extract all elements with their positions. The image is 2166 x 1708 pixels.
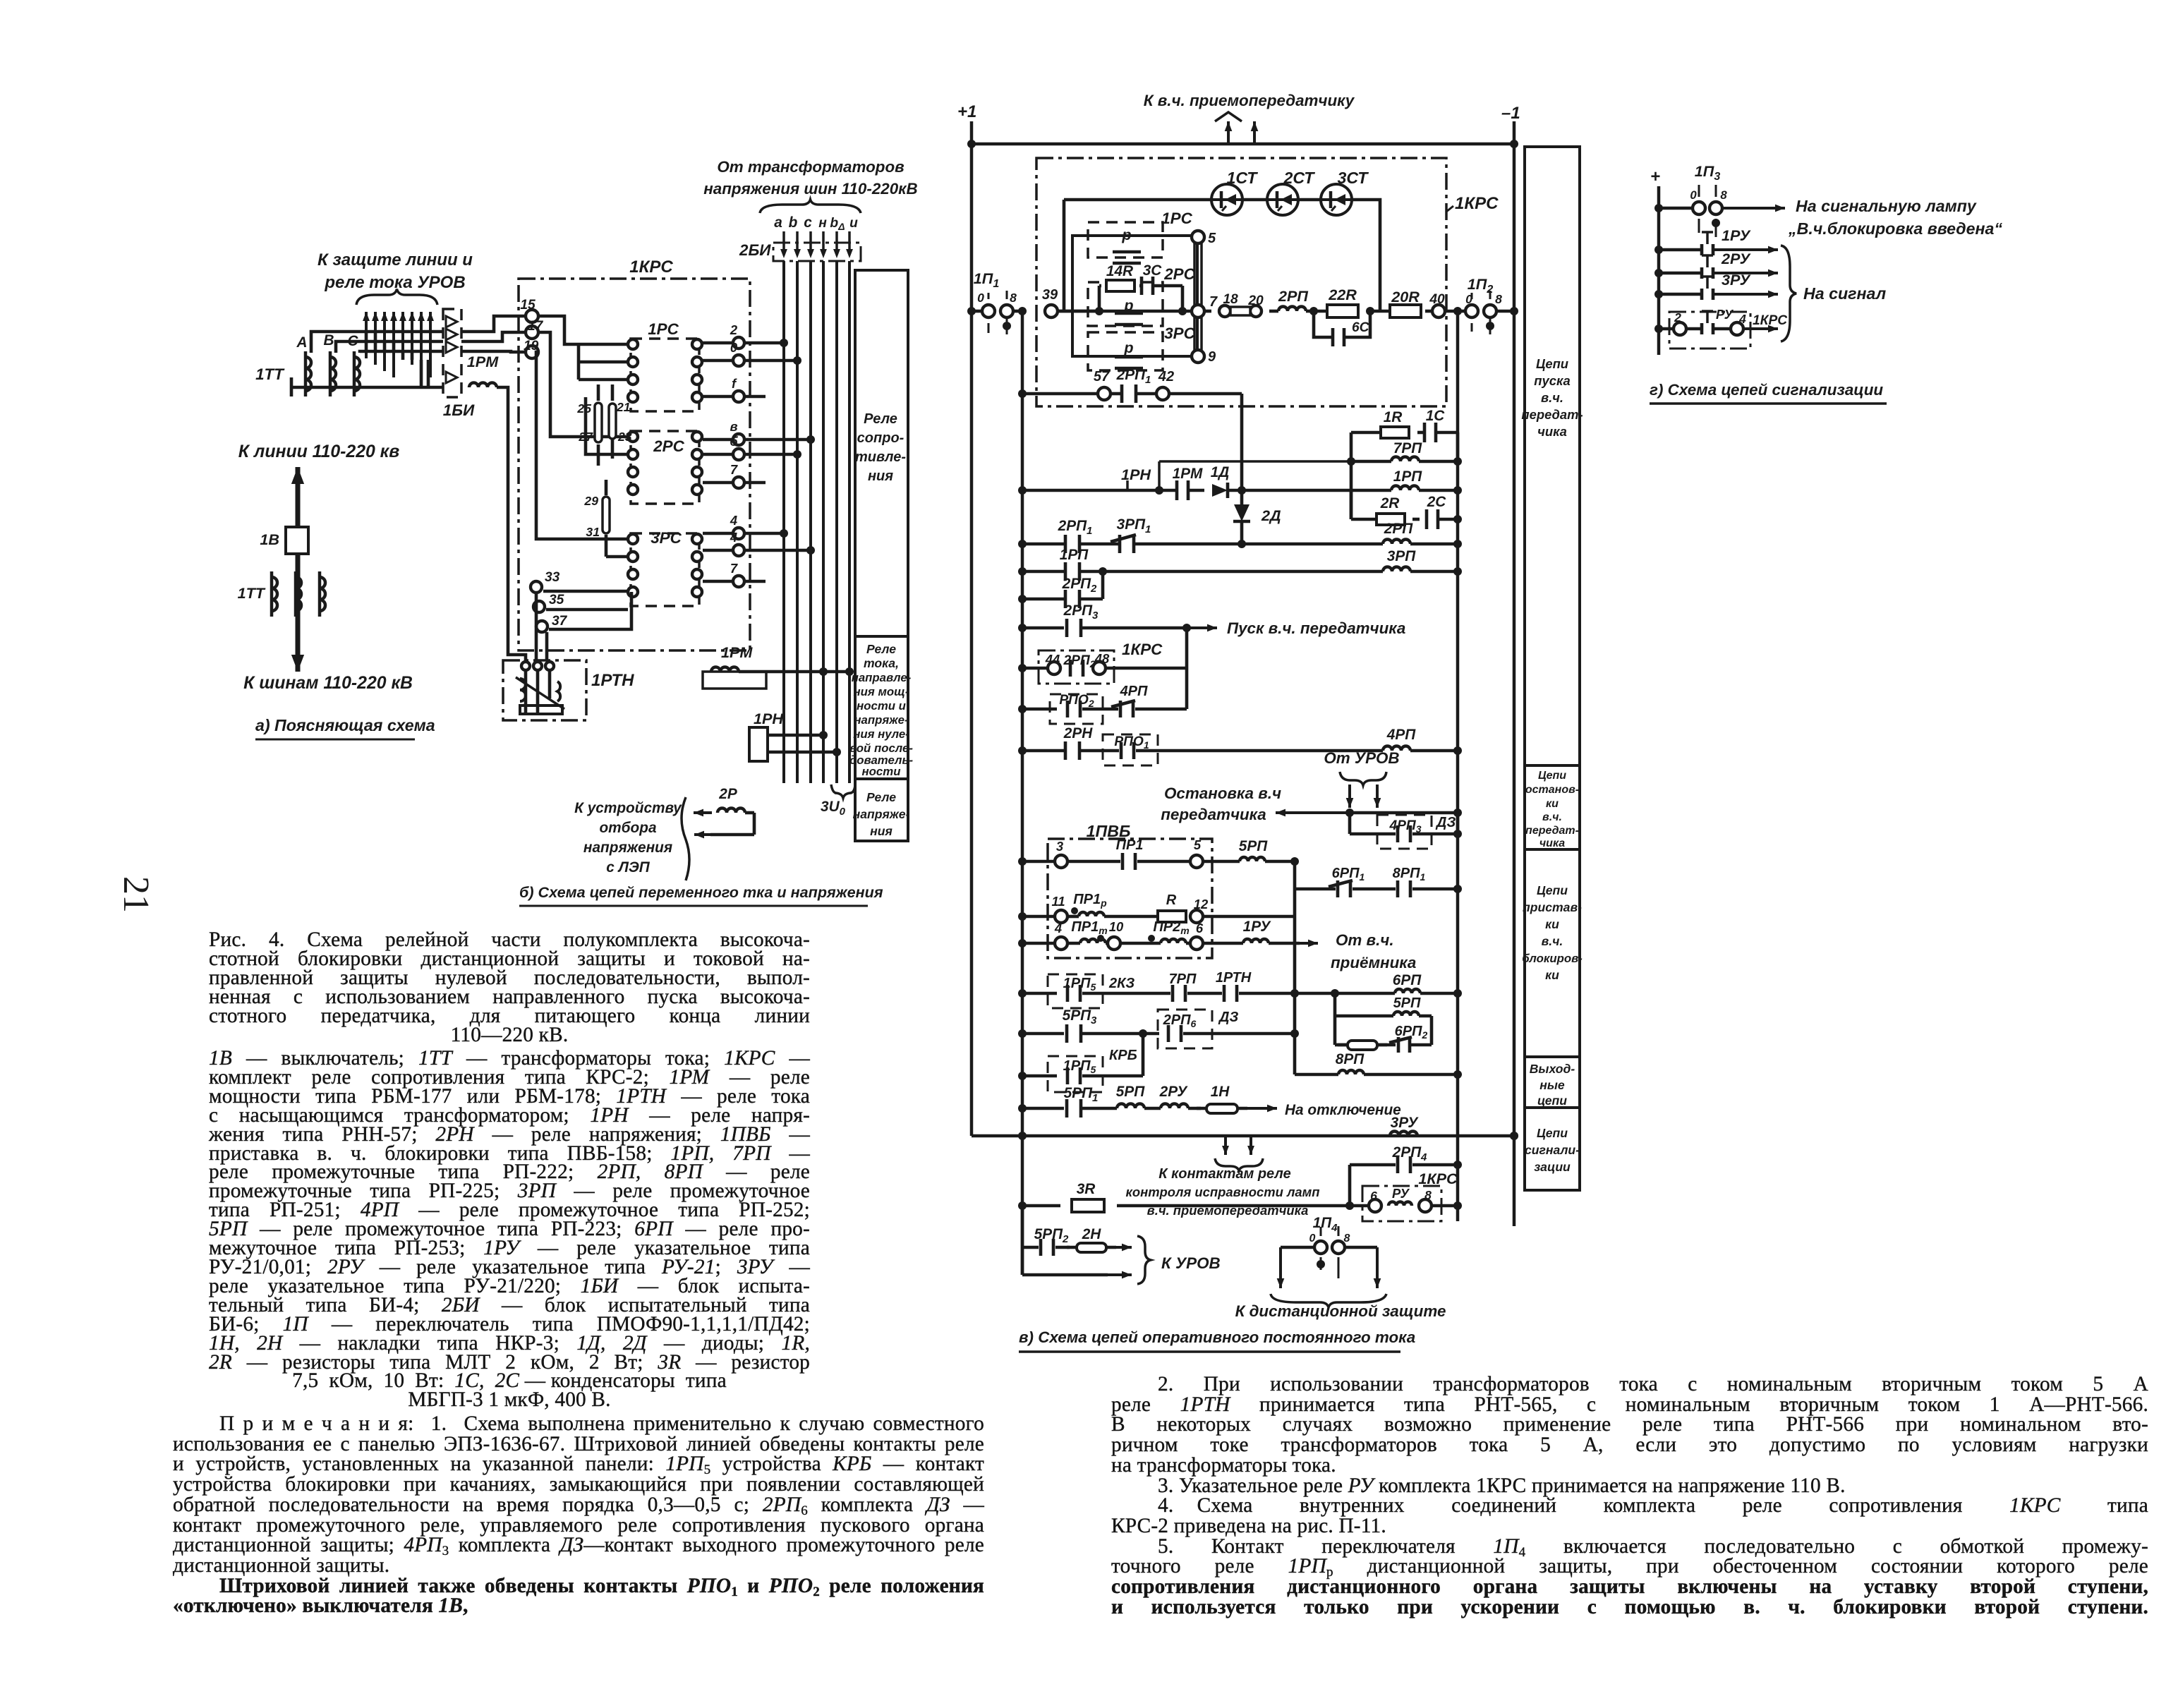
svg-text:0: 0 (730, 340, 738, 355)
svg-text:ности: ности (862, 765, 901, 778)
relay 1РТН symbol (516, 662, 564, 714)
svg-text:7РП: 7РП (1393, 440, 1422, 456)
contact РУ (1КРС) to signal (1654, 307, 1788, 349)
svg-text:42: 42 (1158, 369, 1174, 384)
svg-text:А: А (296, 334, 307, 351)
svg-text:25: 25 (576, 401, 591, 416)
test block 2БИ (773, 231, 861, 261)
svg-text:1П4: 1П4 (1313, 1215, 1338, 1234)
svg-text:3РС: 3РС (651, 529, 682, 547)
resistor 2R capacitor 2C branch (1351, 490, 1462, 529)
svg-text:На сигнальную лампу: На сигнальную лампу (1796, 197, 1977, 215)
svg-text:1ТТ: 1ТТ (255, 365, 285, 383)
svg-text:2РУ: 2РУ (1159, 1084, 1189, 1100)
svg-text:2РУ: 2РУ (1721, 250, 1751, 267)
label "К устройству отбора напряжения с ЛЭП" (574, 800, 682, 876)
svg-text:ПР1р: ПР1р (1073, 892, 1107, 909)
svg-text:5: 5 (1194, 837, 1202, 852)
svg-text:2R: 2R (1380, 495, 1400, 511)
feeder arrow down (291, 607, 304, 672)
svg-text:–1: –1 (1501, 104, 1520, 123)
svg-text:чика: чика (1539, 837, 1565, 849)
svg-text:В: В (323, 332, 334, 349)
svg-text:10: 10 (1109, 919, 1124, 934)
svg-text:ДЗ: ДЗ (1218, 1010, 1238, 1025)
contact row 5РП1-5РП-2РУ-1Н trip output (1018, 1084, 1401, 1118)
svg-text:К УРОВ: К УРОВ (1161, 1254, 1221, 1272)
svg-text:5: 5 (1208, 231, 1216, 246)
wire stop HF row (1276, 808, 1462, 817)
box Реле сопротивления (855, 270, 908, 636)
svg-text:2РП1: 2РП1 (1058, 518, 1093, 537)
svg-text:1КРС: 1КРС (629, 258, 673, 277)
svg-text:21: 21 (116, 876, 156, 913)
svg-text:На отключение: На отключение (1285, 1102, 1401, 1118)
contact row 2РП3 start HF transmitter (1018, 602, 1405, 709)
svg-text:Реле: Реле (866, 790, 896, 804)
node -1 (1501, 104, 1520, 123)
contact row 6РП1-8РП1 (1295, 866, 1462, 897)
svg-text:ния: ния (870, 824, 893, 838)
signal row with coil 3РУ (972, 1115, 1518, 1155)
svg-text:цепи: цепи (1537, 1094, 1567, 1108)
svg-text:1КРС: 1КРС (1122, 641, 1163, 658)
resistor 29-31 (583, 494, 610, 539)
wire -1 rail (1510, 121, 1518, 1226)
svg-text:8: 8 (1010, 291, 1017, 305)
svg-text:КРБ: КРБ (1109, 1048, 1137, 1063)
svg-text:1КРС: 1КРС (1455, 194, 1499, 213)
svg-text:11: 11 (1051, 894, 1065, 909)
svg-text:2Д: 2Д (1261, 507, 1281, 524)
arrows to УРОВ protection (363, 312, 434, 377)
svg-text:2СТ: 2СТ (1283, 169, 1316, 187)
svg-text:22R: 22R (1328, 286, 1357, 303)
resistor 20R (1390, 288, 1433, 317)
svg-text:48: 48 (1094, 651, 1110, 666)
label 1ТТ (255, 365, 285, 383)
terminal 33 (531, 570, 560, 593)
svg-text:1РП5: 1РП5 (1063, 1058, 1096, 1075)
label 1КРС (в) (1446, 194, 1499, 213)
svg-text:1РС: 1РС (648, 320, 679, 338)
current transformer 1ТТ phase C (354, 351, 360, 396)
svg-text:35: 35 (549, 593, 564, 607)
svg-text:1РП: 1РП (1393, 468, 1422, 485)
brace На сигнал (1781, 246, 1887, 341)
svg-text:Реле: Реле (866, 642, 896, 656)
svg-text:2РП4: 2РП4 (1392, 1144, 1427, 1163)
switch 1П3 (1654, 162, 1785, 237)
svg-text:РПО1: РПО1 (1114, 734, 1149, 751)
svg-text:2РС: 2РС (1163, 265, 1195, 283)
contact row 1РН-1РМ-1Д (1018, 464, 1462, 500)
label Цепи сигнализации (1525, 1126, 1580, 1174)
schematic b) AC current and voltage circuits (503, 158, 918, 906)
svg-text:г) Схема цепей сигнализации: г) Схема цепей сигнализации (1650, 381, 1883, 399)
column box Выходные цепи (1525, 1057, 1580, 1108)
svg-text:3РС: 3РС (1164, 325, 1195, 342)
svg-text:3С: 3С (1143, 262, 1163, 279)
3РС element box (1088, 325, 1196, 370)
HF blocking attachment 1ПВБ box (1048, 822, 1212, 958)
line arrow up (291, 467, 304, 528)
svg-text:1РП5: 1РП5 (1063, 976, 1096, 993)
svg-text:bΔ: bΔ (830, 216, 845, 232)
svg-text:1КРС: 1КРС (1753, 313, 1788, 328)
svg-text:2РП: 2РП (1384, 521, 1413, 537)
wire top rail (972, 143, 1514, 146)
resistor 1R capacitor 1С branch (1351, 408, 1458, 519)
svg-text:в.ч.: в.ч. (1542, 934, 1563, 948)
svg-text:b: b (789, 214, 798, 231)
svg-text:От УРОВ: От УРОВ (1324, 749, 1399, 767)
svg-text:5РП: 5РП (1116, 1084, 1145, 1100)
label От УРОВ (1324, 749, 1399, 767)
row 3R with РУ (1КРС) (1018, 1170, 1462, 1221)
contact row 3-ПР1-5 with coil 5РП (1018, 837, 1299, 1074)
svg-text:9: 9 (1208, 349, 1216, 365)
schematic v) DC operative circuits (957, 92, 1583, 1352)
terminal 39 (1042, 287, 1099, 317)
svg-text:ПР1: ПР1 (1116, 837, 1144, 853)
svg-text:3РП: 3РП (1387, 548, 1416, 564)
node + (signal circuit) (1650, 167, 1660, 186)
label Реле тока направления мощности (849, 642, 914, 778)
box Реле напряжения (855, 779, 908, 841)
relay coil 2РП (main row) (1278, 287, 1314, 311)
svg-text:39: 39 (1042, 287, 1058, 303)
svg-text:2РП2: 2РП2 (1062, 576, 1097, 595)
svg-text:R: R (1166, 892, 1177, 908)
svg-text:в: в (730, 419, 737, 434)
test block 1БИ (443, 309, 461, 397)
svg-text:3РУ: 3РУ (1722, 271, 1751, 289)
resistor 21-23 (609, 400, 632, 444)
svg-text:2Н: 2Н (1082, 1226, 1102, 1242)
node +1 (957, 102, 976, 121)
contact row 1РП5-7РП-1РТН with coil 6РП (1018, 970, 1462, 1008)
junction signal rail (1510, 1132, 1518, 1140)
svg-text:Цепи: Цепи (1537, 1126, 1568, 1140)
contact loop 2РП2 (1018, 571, 1103, 608)
svg-text:1П1: 1П1 (974, 269, 1000, 290)
wire CT secondary harness (291, 332, 444, 396)
box Реле тока (855, 636, 908, 779)
svg-text:14R: 14R (1106, 263, 1133, 279)
svg-text:5РП2: 5РП2 (1034, 1226, 1069, 1245)
schematic g) signalling circuits (1650, 162, 2002, 404)
svg-text:ные: ные (1539, 1078, 1565, 1092)
transistor 2СТ (1267, 169, 1315, 215)
svg-text:8РП: 8РП (1336, 1051, 1365, 1067)
power relay 1РМ (703, 643, 854, 689)
svg-text:15: 15 (520, 298, 536, 313)
svg-text:На сигнал: На сигнал (1803, 284, 1887, 303)
svg-text:57: 57 (1094, 369, 1110, 384)
svg-text:33: 33 (545, 570, 560, 585)
svg-text:Выход-: Выход- (1530, 1062, 1575, 1076)
svg-text:б: б (730, 434, 738, 449)
svg-text:2КЗ: 2КЗ (1108, 976, 1135, 991)
contact row 44-2РП2-48 (1КРС) (1018, 641, 1187, 684)
svg-text:и: и (849, 216, 858, 231)
relay set 1КРС box (519, 279, 750, 650)
label C (347, 333, 358, 349)
terminal 35 (533, 593, 564, 612)
svg-text:6РП1: 6РП1 (1332, 866, 1365, 883)
svg-text:2РП6: 2РП6 (1163, 1012, 1197, 1029)
svg-text:2РП: 2РП (1278, 287, 1308, 305)
svg-text:1КРС: 1КРС (1418, 1170, 1458, 1187)
resistance relay 1РС (628, 320, 702, 411)
caption г) Схема цепей сигнализации (1650, 381, 1887, 404)
svg-text:1БИ: 1БИ (443, 401, 475, 419)
svg-text:ки: ки (1546, 798, 1559, 810)
label Остановка в.ч передатчика (1161, 785, 1281, 823)
svg-text:с ЛЭП: с ЛЭП (606, 859, 651, 876)
page number 21 (116, 876, 156, 913)
svg-text:зации: зации (1534, 1160, 1571, 1174)
svg-text:сопро-: сопро- (857, 430, 904, 446)
svg-text:а) Поясняющая схема: а) Поясняющая схема (255, 716, 435, 734)
svg-text:напряже-: напряже- (854, 713, 909, 727)
svg-text:8: 8 (1720, 188, 1727, 202)
svg-text:отбора: отбора (599, 820, 656, 836)
contact row 5РП2-2Н to УРОВ (1022, 1206, 1132, 1278)
brace 2Р (682, 797, 689, 880)
contact 1РУ to signal (1654, 226, 1778, 255)
svg-text:К дистанционной защите: К дистанционной защите (1235, 1302, 1446, 1320)
contact row 1РП with coil 3РП (1018, 547, 1462, 581)
column box Цепи сигнализации (1525, 1108, 1580, 1190)
svg-text:8: 8 (1424, 1188, 1432, 1202)
label Выходные цепи (1530, 1062, 1575, 1108)
svg-text:ки: ки (1545, 968, 1559, 982)
svg-text:4РП3: 4РП3 (1388, 818, 1421, 835)
label 1РТН (591, 671, 634, 690)
svg-text:напряжения: напряжения (583, 840, 672, 856)
label B (323, 332, 334, 349)
svg-text:„В.ч.блокировка введена“: „В.ч.блокировка введена“ (1788, 219, 2002, 238)
label Цепи пуска вч передатчика (1521, 356, 1583, 439)
contact 3РУ to signal (1654, 271, 1778, 300)
svg-text:2: 2 (730, 322, 738, 337)
contact row 5РП3-2РП6 (1018, 1007, 1299, 1048)
caption в) Схема цепей оперативного постоянного тока (1019, 1328, 1415, 1352)
label Реле напряжения (853, 790, 910, 838)
label 2БИ (739, 241, 771, 259)
wire right bus (1456, 311, 1460, 1221)
svg-text:8РП1: 8РП1 (1393, 866, 1426, 883)
svg-text:23: 23 (617, 430, 632, 444)
brace К дистанционной защите (1235, 1294, 1446, 1320)
label "К линии 110-220 кв" (238, 442, 399, 461)
coil 5РП with contact 6РП2 loop (1331, 989, 1432, 1053)
svg-text:К устройству: К устройству (574, 800, 682, 816)
capacitor 6С parallel (1309, 307, 1374, 346)
svg-text:К защите линии и: К защите линии и (317, 250, 473, 269)
svg-text:пуска: пуска (1534, 373, 1570, 388)
svg-text:7: 7 (730, 462, 738, 477)
capacitor 3С (1142, 262, 1162, 295)
svg-text:2: 2 (1674, 310, 1681, 325)
svg-text:в) Схема цепей оперативного: в) Схема цепей оперативного постоянного … (1019, 1328, 1415, 1346)
svg-text:ки: ки (1545, 917, 1559, 931)
label 1БИ (443, 401, 475, 419)
svg-text:8: 8 (1495, 292, 1502, 306)
brace От УРОВ (1340, 772, 1386, 785)
resistor 22R (1314, 286, 1391, 317)
output terminals to voltage relays (703, 322, 815, 587)
svg-text:К шинам 110-220 кВ: К шинам 110-220 кВ (243, 674, 413, 693)
svg-text:напряже-: напряже- (853, 807, 910, 821)
wire 1РМ to 1РТН (497, 387, 526, 660)
svg-text:7: 7 (1209, 294, 1218, 310)
wire breaker to CTs (296, 554, 301, 608)
svg-text:останов-: останов- (1525, 784, 1579, 796)
current relay 1РТН box (503, 660, 586, 720)
relay coil 1РМ (467, 353, 499, 387)
svg-text:РУ: РУ (1716, 307, 1734, 322)
terminal 15 (520, 298, 538, 322)
svg-text:4РП: 4РП (1386, 727, 1416, 743)
svg-text:тока,: тока, (864, 656, 899, 670)
wires 2Р loop (694, 809, 754, 839)
svg-text:1РУ: 1РУ (1243, 919, 1272, 935)
element frame (1072, 236, 1197, 356)
coil 2Р (718, 786, 745, 813)
wire 14R 3C loop (1095, 286, 1187, 315)
svg-text:1РТН: 1РТН (591, 671, 634, 690)
svg-text:Реле: Реле (864, 411, 897, 427)
svg-text:3: 3 (1056, 839, 1064, 854)
svg-text:2С: 2С (1427, 494, 1447, 510)
svg-text:1ТТ: 1ТТ (238, 584, 266, 602)
brace К УРОВ (1137, 1236, 1221, 1284)
svg-text:1РТН: 1РТН (1216, 970, 1252, 986)
label "От трансформаторов напряжения шин 110-220кВ" (703, 158, 917, 198)
svg-text:К контактам реле: К контактам реле (1158, 1166, 1290, 1182)
svg-text:4: 4 (730, 513, 737, 528)
resistance relay 3РС (628, 529, 702, 606)
svg-text:Остановка в.ч: Остановка в.ч (1164, 785, 1281, 802)
svg-text:29: 29 (583, 494, 598, 508)
wire 7РП left drop (1155, 461, 1351, 495)
svg-text:блокиров-: блокиров- (1522, 952, 1583, 965)
wire +1 rail (967, 121, 976, 1136)
switch 1П1 (972, 269, 1027, 334)
svg-text:2БИ: 2БИ (739, 241, 771, 259)
relay set 1КРС box (в) (1036, 158, 1446, 406)
svg-text:ния: ния (868, 468, 893, 484)
wire 1КРС to 1РТН (536, 593, 547, 660)
svg-text:2РН: 2РН (1063, 725, 1093, 741)
svg-text:1R: 1R (1384, 409, 1403, 425)
label A (296, 334, 307, 351)
svg-text:приёмника: приёмника (1331, 954, 1416, 971)
diode 2Д (1233, 490, 1281, 544)
voltage relay 1РН (749, 710, 841, 761)
schematic a) explanatory diagram (238, 250, 526, 739)
svg-text:К линии 110-220 кв: К линии 110-220 кв (238, 442, 399, 461)
svg-text:н: н (818, 216, 827, 231)
svg-text:в.ч.: в.ч. (1541, 390, 1563, 405)
contact row 11-ПР1р-R-12 (1018, 892, 1295, 923)
svg-text:1РС: 1РС (1161, 210, 1192, 227)
label "К шинам 110-220 кВ" (243, 674, 413, 693)
svg-text:1СТ: 1СТ (1227, 169, 1259, 187)
labels a b c н b и (774, 214, 858, 232)
label К контактам реле контроля (1126, 1166, 1320, 1218)
svg-text:4: 4 (1054, 921, 1062, 935)
svg-text:пристав-: пристав- (1523, 900, 1582, 914)
caption б) Схема цепей переменного тока и напряжения (519, 883, 883, 906)
wire transistor row (1064, 200, 1380, 311)
svg-text:2РС: 2РС (653, 437, 684, 455)
contact row 2РН-РПО1 with coil 4РП (1018, 725, 1462, 765)
svg-text:Пуск в.ч. передатчика: Пуск в.ч. передатчика (1227, 619, 1405, 637)
svg-text:ния мощ-: ния мощ- (854, 685, 909, 698)
svg-text:1В: 1В (260, 531, 279, 548)
svg-text:От трансформаторов: От трансформаторов (717, 158, 904, 176)
svg-text:1РМ: 1РМ (1173, 466, 1203, 482)
svg-text:чика: чика (1537, 424, 1567, 439)
svg-text:реле тока УРОВ: реле тока УРОВ (324, 273, 465, 292)
transistor 1СТ (1211, 169, 1258, 215)
svg-text:ПР1т: ПР1т (1071, 919, 1107, 936)
switch 1П4 to distance protection (1277, 1215, 1381, 1288)
svg-text:5РП: 5РП (1393, 995, 1421, 1011)
svg-text:сигнали-: сигнали- (1525, 1143, 1580, 1157)
svg-text:тивле-: тивле- (855, 449, 906, 465)
svg-text:ния нуле-: ния нуле- (853, 727, 909, 741)
svg-text:6РП: 6РП (1393, 972, 1422, 988)
wire left bus (1021, 311, 1024, 1275)
1РС element box (1088, 210, 1193, 263)
wire main row through (1058, 310, 1192, 313)
svg-text:РУ: РУ (1392, 1186, 1410, 1201)
svg-text:1Д: 1Д (1211, 464, 1230, 480)
label "К защите линии и реле тока УРОВ" (317, 250, 473, 292)
terminal 19 (524, 339, 539, 358)
label Цепи остановки (1525, 770, 1579, 849)
column box Цепи пуска (1525, 147, 1580, 765)
svg-text:1С: 1С (1426, 408, 1446, 424)
wire signal rail (1657, 186, 1661, 355)
svg-text:21: 21 (616, 400, 631, 414)
svg-text:р: р (1123, 339, 1133, 356)
breaker 1В (260, 527, 308, 554)
brace lamp relay (1215, 1158, 1263, 1171)
switch 1П2 (1453, 275, 1518, 334)
svg-text:a: a (774, 214, 782, 231)
svg-text:2РП2: 2РП2 (1063, 653, 1095, 670)
caption а) Поясняющая схема (255, 716, 435, 739)
svg-text:1РМ: 1РМ (721, 643, 753, 661)
svg-text:2Р: 2Р (718, 786, 737, 802)
svg-text:3U0: 3U0 (821, 799, 846, 818)
label На сигнальную лампу (1788, 197, 2002, 238)
contact row 57-2РП1-42 (1018, 367, 1242, 490)
svg-text:5РП3: 5РП3 (1063, 1007, 1097, 1026)
brace voltage bus (760, 200, 861, 213)
svg-text:+: + (1650, 167, 1660, 186)
svg-text:3СТ: 3СТ (1338, 169, 1369, 187)
coil 8РП row (1295, 1051, 1462, 1079)
terminal 37 (536, 614, 568, 632)
contact row 2РП1-3РП1 with coil 2РП (1018, 516, 1462, 553)
